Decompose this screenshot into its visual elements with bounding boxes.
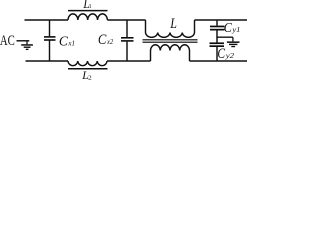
svg-text:2: 2 — [88, 75, 92, 80]
svg-text:C: C — [98, 31, 107, 47]
svg-text:y1: y1 — [231, 25, 240, 33]
svg-text:1: 1 — [89, 4, 92, 10]
svg-text:y2: y2 — [225, 51, 234, 59]
svg-text:C: C — [224, 20, 232, 35]
svg-text:C: C — [59, 34, 69, 49]
svg-text:x1: x1 — [67, 40, 75, 48]
svg-text:C: C — [217, 45, 225, 62]
svg-text:AC: AC — [0, 32, 15, 48]
svg-text:x2: x2 — [106, 38, 114, 47]
svg-text:L: L — [169, 15, 177, 31]
